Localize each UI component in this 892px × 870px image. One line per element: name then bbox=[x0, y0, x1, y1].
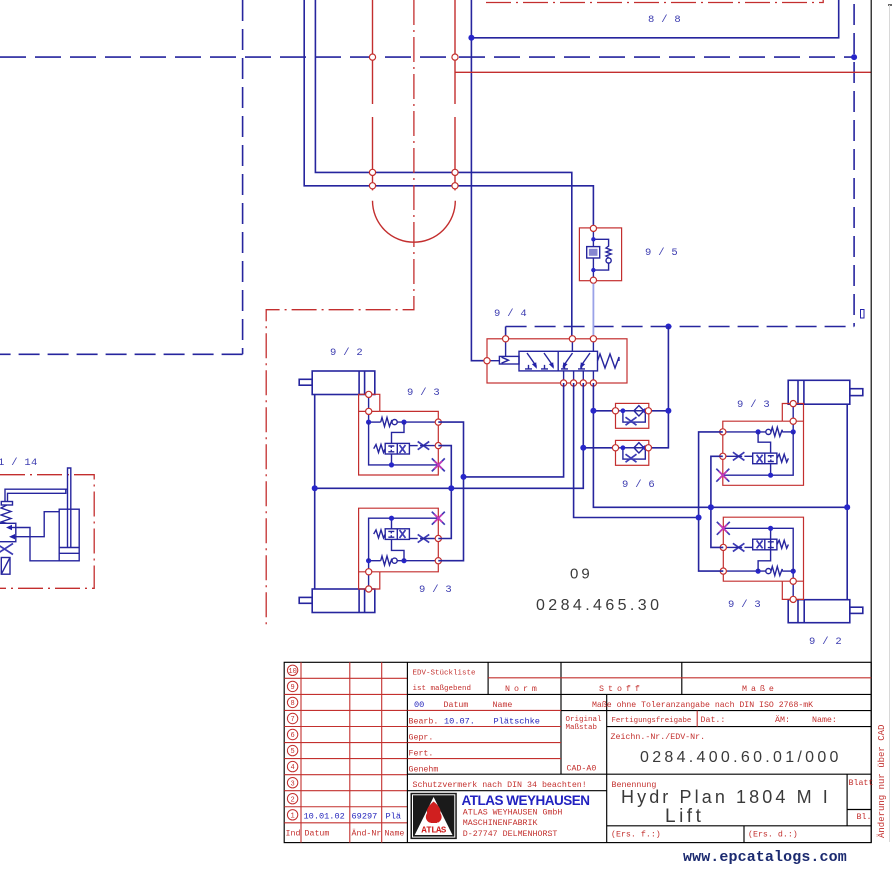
wire pilot dashed loop left branch bbox=[0, 0, 854, 354]
valve block 9/3 left bottom enclosure bbox=[359, 508, 439, 589]
svg-text:Datum: Datum bbox=[444, 701, 469, 710]
directional valve 9/4 return spring bbox=[598, 354, 620, 368]
node 9/3 left top ports bbox=[366, 391, 442, 448]
svg-text:9 / 2: 9 / 2 bbox=[330, 347, 363, 359]
wire left cylinders common line bbox=[314, 395, 316, 590]
svg-text:MASCHINENFABRIK: MASCHINENFABRIK bbox=[463, 819, 538, 828]
svg-text:Änd-Nr: Änd-Nr bbox=[352, 829, 382, 839]
svg-text:4: 4 bbox=[290, 764, 294, 772]
svg-text:1: 1 bbox=[290, 812, 294, 820]
plugged port X right bottom bbox=[717, 522, 730, 535]
red header dash-dot top bbox=[486, 0, 823, 3]
wire tank line B (x=304) bbox=[304, 0, 593, 228]
svg-text:00: 00 bbox=[414, 700, 424, 710]
svg-text:Fertigungsfreigabe: Fertigungsfreigabe bbox=[612, 717, 692, 725]
svg-text:ATLAS WEYHAUSEN GmbH: ATLAS WEYHAUSEN GmbH bbox=[463, 808, 563, 818]
svg-text:Gepr.: Gepr. bbox=[409, 734, 434, 743]
svg-text:8: 8 bbox=[290, 700, 294, 708]
svg-text:Plä: Plä bbox=[386, 812, 401, 822]
svg-text:9 / 3: 9 / 3 bbox=[728, 599, 761, 611]
node right common tee bbox=[844, 504, 850, 510]
svg-text:EDV-Stückliste: EDV-Stückliste bbox=[413, 670, 476, 678]
svg-text:www.epcatalogs.com: www.epcatalogs.com bbox=[683, 849, 847, 866]
wire pump pressure line bbox=[471, 0, 487, 361]
node 9/3 right top ports bbox=[720, 401, 797, 460]
svg-text:Zeichn.-Nr./EDV-Nr.: Zeichn.-Nr./EDV-Nr. bbox=[611, 732, 706, 742]
wire left block check link bbox=[438, 422, 463, 561]
svg-text:9 / 2: 9 / 2 bbox=[809, 636, 842, 648]
svg-text:Genehm: Genehm bbox=[409, 765, 439, 775]
node hose coupling circles bbox=[369, 54, 458, 189]
valve block 9/3 right bottom internals bbox=[723, 526, 796, 600]
svg-text:Fert.: Fert. bbox=[409, 750, 434, 759]
svg-text:Original: Original bbox=[566, 716, 603, 724]
wire tank line A (x=315) bbox=[315, 0, 571, 339]
valve block 9/3 right top internals bbox=[723, 404, 796, 478]
svg-text:Schutzvermerk nach DIN 34 beac: Schutzvermerk nach DIN 34 beachten! bbox=[413, 780, 587, 790]
svg-text:10.01.02: 10.01.02 bbox=[304, 812, 345, 822]
relief valve 9/5 enclosure bbox=[579, 228, 621, 281]
title block outer frame bbox=[284, 662, 871, 842]
plugged port X left bottom bbox=[432, 512, 445, 525]
svg-text:0284.465.30: 0284.465.30 bbox=[536, 597, 662, 614]
frame outer edge marks bbox=[861, 5, 892, 842]
directional valve 9/4 pilot actuator bbox=[487, 339, 519, 364]
svg-text:Maßstab: Maßstab bbox=[566, 724, 598, 732]
svg-text:69297: 69297 bbox=[352, 812, 378, 822]
node 9/5 ports bbox=[590, 225, 596, 231]
brake assembly 1/14 enclosure (red dash-dot) bbox=[0, 475, 94, 589]
node 9/3 left bottom ports bbox=[366, 535, 442, 592]
svg-text:8 / 8: 8 / 8 bbox=[648, 14, 681, 26]
svg-text:(Ers. f.:): (Ers. f.:) bbox=[611, 830, 661, 840]
node 9/4 ports bbox=[484, 336, 597, 386]
wire branch to upper 9/6 bbox=[593, 410, 615, 412]
svg-text:Maße: Maße bbox=[742, 684, 778, 694]
svg-text:5: 5 bbox=[290, 748, 294, 756]
wire 9/4 port to left manifold bbox=[315, 383, 584, 488]
svg-text:Name:: Name: bbox=[812, 716, 837, 725]
wire right block valve link bbox=[711, 456, 723, 547]
plugged port X left top bbox=[432, 458, 445, 471]
svg-text:Lift: Lift bbox=[665, 806, 704, 827]
svg-text:9 / 3: 9 / 3 bbox=[419, 584, 452, 596]
svg-text:9 / 3: 9 / 3 bbox=[407, 387, 440, 399]
svg-text:2: 2 bbox=[290, 796, 294, 804]
wire riser to 9/6 valves bbox=[648, 327, 668, 448]
svg-text:Name: Name bbox=[493, 701, 513, 710]
svg-text:Blatt: Blatt bbox=[849, 778, 874, 788]
wire 9/4 port to right cylinders bbox=[593, 383, 847, 507]
svg-text:CAD-A0: CAD-A0 bbox=[567, 765, 597, 774]
relief valve 9/5 internals bbox=[587, 228, 612, 280]
svg-text:Stoff: Stoff bbox=[599, 684, 644, 694]
hose loop arc (red) bbox=[373, 201, 456, 242]
valve block 9/3 right top enclosure bbox=[723, 404, 804, 486]
check valve 9/6 upper bbox=[612, 403, 651, 428]
ATLAS logo bbox=[411, 793, 457, 839]
svg-text:9 / 4: 9 / 4 bbox=[494, 308, 527, 320]
svg-text:ist maßgebend: ist maßgebend bbox=[413, 685, 472, 693]
valve block 9/3 right bottom enclosure bbox=[723, 517, 803, 599]
cylinder 9/2 right bottom bbox=[788, 600, 863, 623]
svg-text:0284.400.60.01/000: 0284.400.60.01/000 bbox=[640, 749, 842, 766]
node left common tee bbox=[312, 485, 318, 491]
hose loop left leg (red) bbox=[372, 0, 374, 190]
node pilot junction above valve bbox=[665, 324, 671, 330]
svg-text:10.07.: 10.07. bbox=[444, 717, 475, 727]
revision header Ind Datum Änd-Nr Name bbox=[286, 829, 405, 839]
svg-text:Bl.: Bl. bbox=[857, 812, 872, 822]
revision table rows (red) bbox=[284, 678, 407, 822]
node pilot junction top right bbox=[851, 54, 857, 60]
svg-text:ÄM:: ÄM: bbox=[775, 715, 790, 725]
svg-text:09: 09 bbox=[570, 566, 593, 583]
node pump tee bbox=[468, 35, 474, 41]
svg-text:Hydr Plan 1804 M I: Hydr Plan 1804 M I bbox=[621, 787, 831, 807]
svg-text:Ind: Ind bbox=[286, 829, 301, 839]
svg-text:(Ers. d.:): (Ers. d.:) bbox=[748, 830, 798, 840]
svg-text:6: 6 bbox=[290, 732, 294, 740]
valve block 9/3 left top internals bbox=[366, 394, 438, 467]
svg-text:Plätschke: Plätschke bbox=[494, 717, 540, 727]
wire 9/5 to valve (lavender) bbox=[592, 284, 594, 339]
svg-text:9: 9 bbox=[290, 684, 294, 692]
cylinder 9/2 left bottom bbox=[299, 589, 375, 613]
cell texts upper bbox=[413, 670, 814, 711]
cylinder 9/2 left top bbox=[299, 371, 375, 395]
wire upper 9/6 to riser bbox=[648, 410, 668, 412]
svg-text:ATLAS WEYHAUSEN: ATLAS WEYHAUSEN bbox=[462, 793, 590, 808]
svg-text:10: 10 bbox=[288, 668, 296, 676]
brake assembly 1/14 internals bbox=[0, 468, 79, 574]
wire to sheet 8/8 bbox=[471, 0, 838, 38]
hose loop right leg (red) bbox=[454, 0, 456, 190]
svg-text:ATLAS: ATLAS bbox=[421, 826, 447, 836]
svg-text:9 / 6: 9 / 6 bbox=[622, 479, 655, 491]
svg-text:Maße ohne Toleranzangabe nach: Maße ohne Toleranzangabe nach DIN ISO 27… bbox=[592, 700, 813, 710]
revision row 1 entries bbox=[304, 812, 401, 822]
wire 9/4 port to right manifold bbox=[574, 383, 699, 518]
cylinder 9/2 right top bbox=[788, 380, 863, 404]
directional valve 9/4 enclosure bbox=[487, 339, 627, 383]
revision table columns (red) bbox=[301, 662, 382, 842]
svg-text:9 / 5: 9 / 5 bbox=[645, 247, 678, 259]
scale cell bbox=[566, 716, 603, 774]
node left link tees bbox=[448, 474, 466, 491]
svg-text:3: 3 bbox=[290, 780, 294, 788]
svg-text:9 / 3: 9 / 3 bbox=[737, 399, 770, 411]
node 9/3 right bottom ports bbox=[720, 544, 796, 602]
revision index circles 10..1 bbox=[287, 665, 297, 820]
wire red supply tee to frame bbox=[455, 71, 871, 73]
svg-text:Norm: Norm bbox=[505, 685, 541, 694]
wire branch to lower 9/6 bbox=[583, 447, 615, 449]
svg-text:D-27747 DELMENHORST: D-27747 DELMENHORST bbox=[463, 830, 558, 839]
svg-text:Name: Name bbox=[385, 830, 405, 839]
release row bbox=[612, 715, 837, 725]
check valve 9/6 lower bbox=[612, 440, 651, 465]
directional valve 9/4 body bbox=[519, 339, 598, 383]
wire pilot stub valve to dashed bbox=[505, 327, 507, 339]
valve block 9/3 left top enclosure bbox=[359, 394, 439, 475]
approval rows bbox=[409, 717, 439, 775]
svg-text:Datum: Datum bbox=[305, 830, 330, 839]
wire 9/4 port A down-left bbox=[464, 383, 564, 477]
svg-text:1 / 14: 1 / 14 bbox=[0, 457, 38, 469]
valve block 9/3 left bottom internals bbox=[366, 516, 438, 589]
svg-text:7: 7 bbox=[290, 716, 294, 724]
wire right block check link bbox=[699, 432, 724, 571]
title block horizontals bbox=[407, 678, 871, 826]
wire pilot dashed right riser bbox=[506, 4, 854, 327]
frame border right bbox=[870, 0, 872, 843]
wire left block valve link bbox=[438, 446, 451, 539]
node branch tees bbox=[580, 408, 671, 451]
svg-text:Änderung nur über CAD: Änderung nur über CAD bbox=[877, 725, 887, 838]
node right link tees bbox=[696, 504, 714, 520]
wire right cylinders common line bbox=[846, 404, 848, 600]
hose loop centerline (red dash-dot) bbox=[266, 0, 414, 625]
title block main verticals (black) bbox=[407, 662, 847, 842]
svg-text:Dat.:: Dat.: bbox=[701, 716, 726, 725]
plugged port X right top bbox=[716, 469, 729, 482]
svg-text:Bearb.: Bearb. bbox=[409, 717, 439, 727]
ers row bbox=[611, 830, 798, 840]
